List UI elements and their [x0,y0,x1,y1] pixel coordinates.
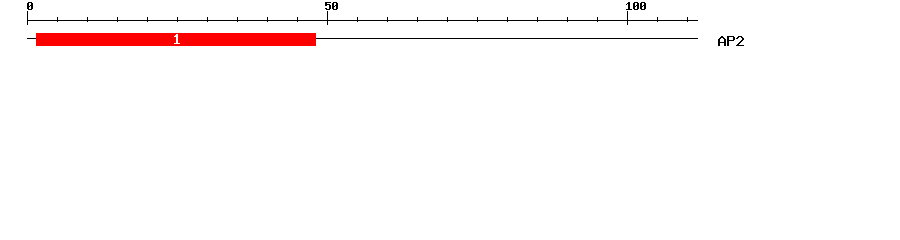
domain number 1 [174,34,180,44]
major tick 50 [327,11,328,25]
major tick 0 [27,11,28,25]
ruler label 50 [325,2,338,10]
minor tick 70 [447,17,448,22]
minor tick 75 [477,17,478,22]
domain box 1 (red) [36,33,316,46]
minor tick 60 [387,17,388,22]
minor tick 90 [567,17,568,22]
minor tick 20 [147,17,148,22]
minor tick 5 [57,17,58,22]
minor tick 25 [177,17,178,22]
minor tick 65 [417,17,418,22]
minor tick 110 [687,17,688,22]
minor tick 55 [357,17,358,22]
minor tick 45 [297,17,298,22]
minor tick 10 [87,17,88,22]
major tick 100 [627,11,628,25]
sequence line [27,38,698,39]
minor tick 95 [597,17,598,22]
protein name AP2 [718,36,744,46]
minor tick 80 [507,17,508,22]
ruler axis line [27,20,698,21]
minor tick 85 [537,17,538,22]
minor tick 35 [237,17,238,22]
minor tick 15 [117,17,118,22]
minor tick 105 [657,17,658,22]
ruler label 100 [626,2,646,10]
ruler label 0 [27,2,33,10]
minor tick 30 [207,17,208,22]
minor tick 40 [267,17,268,22]
